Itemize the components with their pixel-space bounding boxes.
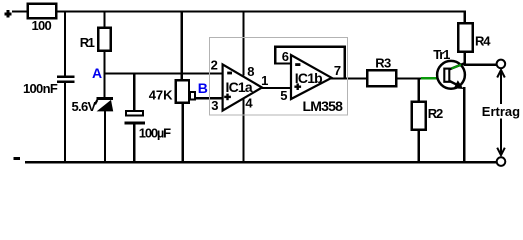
svg-text:B: B: [198, 80, 208, 96]
output terminal top: [497, 60, 506, 69]
wire node A horizontal: [103, 72, 222, 74]
wire R2 bottom lead: [418, 130, 420, 164]
wire 100uF branch lower: [133, 123, 135, 163]
wire R4 bottom lead: [464, 52, 466, 65]
svg-text:A: A: [92, 65, 102, 81]
svg-text:3: 3: [211, 98, 218, 113]
svg-text:R4: R4: [475, 33, 491, 48]
svg-text:47K: 47K: [149, 88, 173, 103]
transistor Tr1: [433, 47, 465, 89]
wire potentiometer to bottom rail: [181, 103, 183, 164]
wire 100nF branch upper: [64, 10, 66, 77]
svg-text:Ertrag: Ertrag: [482, 104, 520, 119]
wire R4 top lead corner: [464, 10, 466, 23]
svg-text:1: 1: [261, 73, 268, 88]
plus terminal: [4, 10, 11, 18]
wire 100nF branch lower: [64, 82, 66, 163]
op-amp IC1a: [223, 64, 262, 110]
svg-text:7: 7: [334, 63, 341, 78]
wire R3 to R2 junction: [396, 77, 421, 79]
svg-text:4: 4: [245, 95, 253, 110]
svg-text:R2: R2: [428, 106, 443, 121]
svg-text:5.6V: 5.6V: [72, 99, 97, 114]
wire top rail: [12, 10, 465, 12]
wire R1 branch: [103, 10, 105, 28]
resistor R1: [98, 28, 111, 51]
wire pin 6 stub: [274, 62, 290, 64]
wire top rail to potentiometer: [181, 10, 183, 80]
wire IC1a output to pin 5: [262, 87, 291, 89]
svg-text:2: 2: [211, 58, 218, 73]
resistor R4: [458, 23, 472, 52]
zener diode 5.6V: [95, 97, 113, 112]
svg-text:5: 5: [280, 88, 287, 103]
wire feedback left vertical: [274, 46, 276, 65]
svg-text:8: 8: [247, 64, 254, 79]
potentiometer 47K: [176, 80, 189, 102]
wire feedback right vertical: [343, 46, 345, 80]
wire wiper to pin 3: [195, 97, 223, 99]
capacitor 100uF: [124, 111, 145, 124]
wire bottom rail: [25, 161, 496, 164]
wire R1 to zener: [103, 51, 105, 98]
svg-text:R3: R3: [375, 56, 391, 71]
IC dashed box LM358: [210, 38, 348, 115]
svg-text:LM358: LM358: [303, 98, 344, 114]
wire 100uF branch upper: [133, 74, 135, 113]
svg-text:100: 100: [32, 18, 52, 33]
svg-text:100µF: 100µF: [139, 126, 171, 141]
Ertrag arrow: [497, 70, 505, 156]
svg-text:IC1a: IC1a: [226, 79, 253, 95]
op-amp IC1b: [291, 55, 332, 99]
wire green base wire: [421, 77, 439, 79]
capacitor 100nF: [57, 76, 74, 83]
wire zener to bottom rail: [104, 111, 106, 163]
wire IC1b output to R3: [331, 77, 367, 79]
svg-text:IC1b: IC1b: [295, 70, 322, 86]
wire pin 8 supply: [242, 10, 244, 75]
svg-text:6: 6: [282, 49, 289, 64]
wire pin 4 ground: [242, 98, 244, 164]
wire collector node to output circle: [464, 64, 496, 66]
minus terminal: [13, 157, 19, 160]
wire feedback top horizontal: [274, 45, 346, 48]
resistor 100: [28, 4, 57, 18]
svg-text:R1: R1: [80, 35, 95, 50]
resistor R3: [367, 70, 396, 86]
wire R2 top lead: [418, 78, 420, 102]
output terminal bottom: [497, 157, 506, 166]
svg-text:100nF: 100nF: [23, 81, 58, 96]
svg-text:Tr1: Tr1: [433, 47, 450, 62]
wire emitter vertical: [463, 87, 465, 163]
resistor R2: [412, 102, 426, 130]
